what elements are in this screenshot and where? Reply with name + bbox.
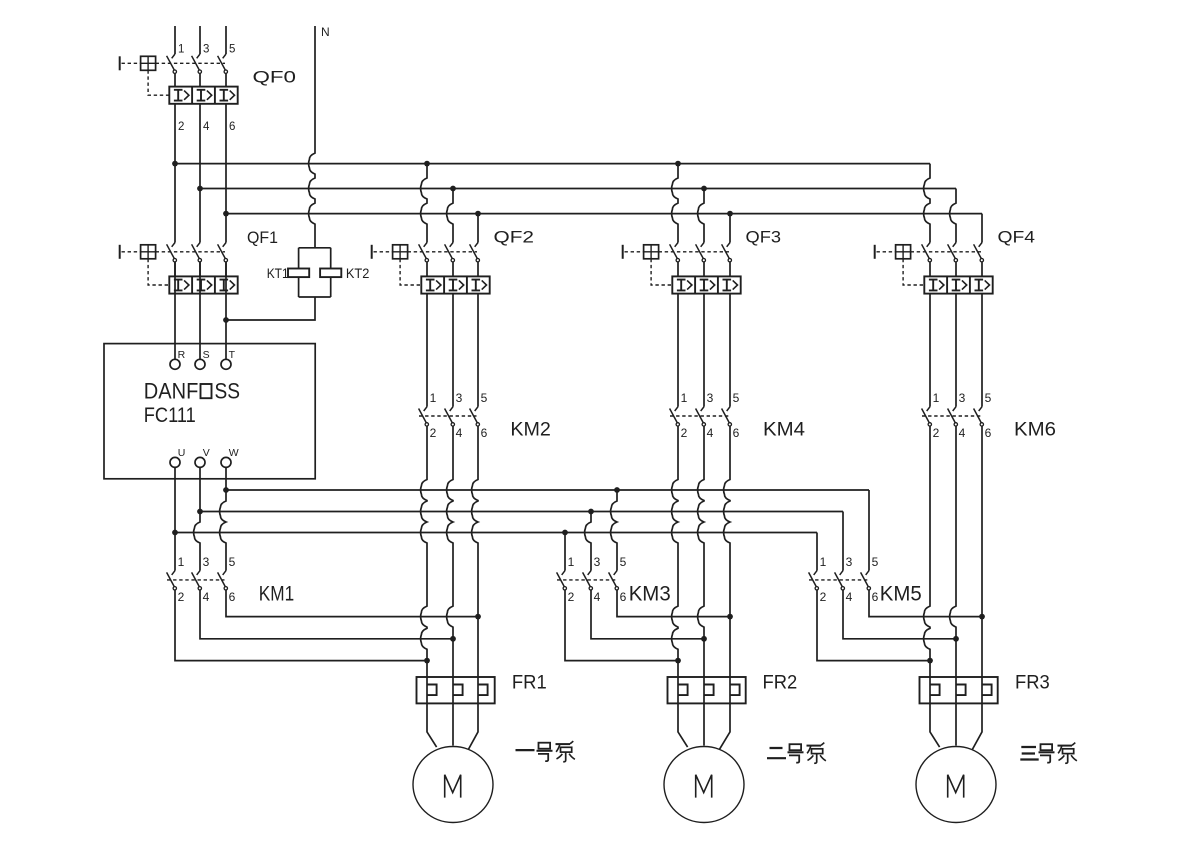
svg-text:5: 5 [481, 391, 488, 405]
svg-text:QF4: QF4 [998, 229, 1036, 247]
wire KM4 pole6 to motor2 W [719, 426, 730, 749]
wire KM5 pole1 to FR3 line1 [817, 590, 930, 660]
svg-text:W: W [229, 447, 239, 459]
svg-text:4: 4 [707, 426, 714, 440]
svg-text:4: 4 [203, 121, 210, 133]
svg-text:2: 2 [933, 426, 940, 440]
thermal overload relay FR2 [668, 677, 746, 703]
wire QF3 to KM4 pole1 [677, 294, 679, 407]
junction busA-KM3 [614, 487, 620, 493]
wire KM3 pole5 to FR2 line3 [617, 590, 730, 616]
contactor KM5 [809, 555, 879, 604]
wire KM2 pole6 to motor1 W [468, 426, 478, 749]
svg-text:6: 6 [872, 590, 879, 604]
square O of DANFOSS [201, 384, 212, 398]
wire bus U out [175, 532, 817, 534]
wire bus V out [200, 511, 843, 513]
wire L3 to QF4 [981, 214, 983, 243]
svg-text:1: 1 [178, 43, 184, 55]
wire KM4 pole4 to motor2 V [698, 426, 704, 745]
circuit breaker QF1 [120, 243, 238, 294]
svg-text:3: 3 [846, 555, 853, 569]
junction L1-QF2 [424, 161, 430, 167]
QF0 pin numbers 2 4 6 [178, 121, 235, 133]
svg-text:KM3: KM3 [629, 583, 671, 606]
svg-text:1: 1 [430, 391, 437, 405]
svg-text:2: 2 [178, 121, 184, 133]
wire L1 to QF4 [924, 164, 930, 243]
svg-text:5: 5 [872, 555, 879, 569]
svg-text:KM4: KM4 [763, 420, 805, 441]
svg-text:4: 4 [456, 426, 463, 440]
svg-text:1: 1 [178, 555, 185, 569]
svg-text:4: 4 [846, 590, 853, 604]
wire QF1-R [174, 262, 176, 359]
wire QF4 to KM6 pole3 [955, 294, 957, 407]
wire busB to KM3 pole3 [585, 512, 591, 571]
svg-text:6: 6 [229, 590, 236, 604]
wire neutral N [309, 26, 315, 248]
VFD output terminals U V W [170, 447, 239, 467]
wire bus W out [226, 489, 869, 491]
wire KT bottom bar [299, 296, 331, 298]
svg-text:FR1: FR1 [512, 671, 547, 693]
svg-text:SS: SS [215, 378, 241, 403]
svg-text:6: 6 [985, 426, 992, 440]
wire L3 feeder top [225, 26, 227, 54]
junction KM5-FR3 line1 [927, 658, 933, 664]
timer bypass contact KT1 [288, 248, 309, 297]
svg-text:DANF: DANF [144, 378, 199, 403]
svg-text:6: 6 [481, 426, 488, 440]
wire QF1-T [225, 262, 227, 359]
svg-text:5: 5 [985, 391, 992, 405]
wire KM6 pole2 to motor3 U [924, 426, 940, 747]
wire QF3 to KM4 pole5 [729, 294, 731, 407]
timer bypass contact KT2 [320, 248, 341, 297]
svg-text:4: 4 [959, 426, 966, 440]
wire KM5 pole5 to FR3 line3 [869, 590, 982, 616]
wire KM1 pole3 to FR1 line2 [200, 590, 453, 639]
svg-text:2: 2 [681, 426, 688, 440]
circuit breaker QF3 [623, 243, 741, 294]
wire KT to T phase [226, 297, 315, 320]
wire KT top bar [299, 247, 331, 249]
svg-text:KT2: KT2 [346, 265, 370, 281]
wire KM1 pole1 to FR1 line1 [175, 590, 427, 660]
junction L2-QF1 [197, 186, 203, 192]
wire L1 to QF2 [421, 164, 427, 243]
wire V to KM1 [194, 467, 200, 570]
wire busA to KM3 pole5 [611, 490, 617, 571]
svg-text:1: 1 [681, 391, 688, 405]
motor M2 [664, 747, 744, 823]
svg-text:6: 6 [229, 121, 235, 133]
VFD input terminals R S T [170, 349, 236, 369]
svg-text:5: 5 [733, 391, 740, 405]
svg-text:KM1: KM1 [259, 583, 294, 606]
junction KM3-FR2 line1 [675, 658, 681, 664]
wire L3 to QF2 [477, 214, 479, 243]
wire busB to KM5 pole3 [842, 512, 844, 571]
svg-text:KM6: KM6 [1014, 420, 1056, 441]
wire QF2 to KM2 pole3 [452, 294, 454, 407]
svg-text:QF1: QF1 [247, 229, 278, 247]
wire KM3 pole1 to FR2 line1 [565, 590, 678, 660]
junction L3-QF3 [727, 211, 733, 217]
junction W-busA [223, 487, 229, 493]
svg-text:FC111: FC111 [144, 404, 196, 427]
circuit breaker QF2 [372, 243, 490, 294]
junction L1-QF1 [172, 161, 178, 167]
svg-text:N: N [321, 25, 330, 39]
svg-text:2: 2 [568, 590, 575, 604]
wire L2 to QF3 [698, 189, 704, 243]
junction KM3-FR2 line3 [727, 614, 733, 620]
wire QF2 to KM2 pole5 [477, 294, 479, 407]
contactor KM1 [167, 555, 236, 604]
svg-text:2: 2 [430, 426, 437, 440]
wire L3 to QF3 [729, 214, 731, 243]
contactor KM2 [419, 391, 488, 440]
svg-text:1: 1 [820, 555, 827, 569]
wire QF4 to KM6 pole1 [929, 294, 931, 407]
svg-text:6: 6 [620, 590, 627, 604]
QF0 pin numbers 1 3 5 [178, 43, 235, 55]
svg-text:6: 6 [733, 426, 740, 440]
svg-text:R: R [178, 349, 186, 361]
wire busC to KM5 pole1 [816, 533, 818, 571]
svg-text:U: U [178, 447, 186, 459]
wire KM6 pole6 to motor3 W [972, 426, 982, 749]
svg-text:QF2: QF2 [494, 229, 535, 247]
svg-text:KT1: KT1 [267, 265, 289, 281]
wire KM6 pole4 to motor3 V [950, 426, 956, 745]
wire L3 bus [226, 213, 982, 215]
wire L2 to QF2 [447, 189, 453, 243]
thermal overload relay FR1 [417, 677, 495, 703]
label 三号泵 [1020, 743, 1077, 764]
wire W to KM1 [220, 467, 226, 570]
junction KM1-FR1 line2 [450, 636, 456, 642]
svg-text:1: 1 [933, 391, 940, 405]
junction KM1-FR1 line1 [424, 658, 430, 664]
wire phase A QF0-QF1 [174, 104, 176, 243]
svg-text:T: T [229, 349, 236, 361]
svg-text:QF3: QF3 [746, 229, 782, 247]
svg-text:3: 3 [959, 391, 966, 405]
svg-text:S: S [203, 349, 210, 361]
wire KM2 pole2 to motor1 U [421, 426, 437, 747]
svg-text:4: 4 [203, 590, 210, 604]
thermal overload relay FR3 [920, 677, 998, 703]
junction L3-QF2 [475, 211, 481, 217]
wire phase B QF0-QF1 [199, 104, 201, 243]
svg-text:KM2: KM2 [510, 420, 551, 441]
junction V-busB [197, 509, 203, 515]
wire L2 feeder top [199, 26, 201, 54]
junction busC-KM3 [562, 530, 568, 536]
contactor KM6 [922, 391, 992, 440]
label 一号泵 [516, 741, 575, 762]
circuit breaker QF0 [120, 54, 238, 104]
svg-text:FR2: FR2 [763, 671, 798, 693]
motor M1 [413, 747, 493, 823]
wire KM2 pole4 to motor1 V [447, 426, 453, 745]
junction L3-QF1 [223, 211, 229, 217]
junction KM1-FR1 line3 [475, 614, 481, 620]
svg-text:3: 3 [203, 555, 210, 569]
wire KM5 pole3 to FR3 line2 [843, 590, 956, 639]
svg-text:KM5: KM5 [880, 583, 922, 606]
svg-text:3: 3 [707, 391, 714, 405]
motor M3 [916, 747, 996, 823]
wire L1 bus [175, 163, 930, 165]
svg-text:1: 1 [568, 555, 575, 569]
wire KM1 pole5 to FR1 line3 [226, 590, 478, 616]
wire KM4 pole2 to motor2 U [672, 426, 688, 747]
wire L1 to QF3 [672, 164, 678, 243]
junction KM5-FR3 line3 [979, 614, 985, 620]
svg-text:4: 4 [594, 590, 601, 604]
svg-text:FR3: FR3 [1015, 671, 1050, 693]
svg-text:2: 2 [178, 590, 185, 604]
svg-text:5: 5 [620, 555, 627, 569]
junction KM5-FR3 line2 [953, 636, 959, 642]
wire U to KM1 [174, 467, 176, 570]
contactor KM4 [670, 391, 740, 440]
label 二号泵 [767, 743, 826, 764]
svg-text:3: 3 [594, 555, 601, 569]
wire QF2 to KM2 pole1 [426, 294, 428, 407]
VFD DANFOSS FC111 box [104, 344, 315, 479]
junction L2-QF2 [450, 186, 456, 192]
wire L1 feeder top [174, 26, 176, 54]
circuit breaker QF4 [875, 243, 993, 294]
junction KM3-FR2 line2 [701, 636, 707, 642]
svg-text:5: 5 [229, 43, 235, 55]
svg-text:QF0: QF0 [253, 69, 297, 87]
wire KM3 pole3 to FR2 line2 [591, 590, 704, 639]
svg-text:5: 5 [229, 555, 236, 569]
wire phase C QF0-QF1 [225, 104, 227, 243]
contactor KM3 [557, 555, 627, 604]
wire L2 to QF4 [950, 189, 956, 243]
junction L2-QF3 [701, 186, 707, 192]
svg-text:3: 3 [203, 43, 209, 55]
junction U-busC [172, 530, 178, 536]
wire busC to KM3 pole1 [564, 533, 566, 571]
wire QF3 to KM4 pole3 [703, 294, 705, 407]
wire QF1-S [199, 262, 201, 359]
wire busA to KM5 pole5 [868, 490, 870, 571]
junction T-KT [223, 317, 229, 323]
wire L2 bus [200, 188, 956, 190]
junction L1-QF3 [675, 161, 681, 167]
junction busB-KM3 [588, 509, 594, 515]
wire QF4 to KM6 pole5 [981, 294, 983, 407]
svg-text:3: 3 [456, 391, 463, 405]
svg-text:2: 2 [820, 590, 827, 604]
svg-text:V: V [203, 447, 210, 459]
